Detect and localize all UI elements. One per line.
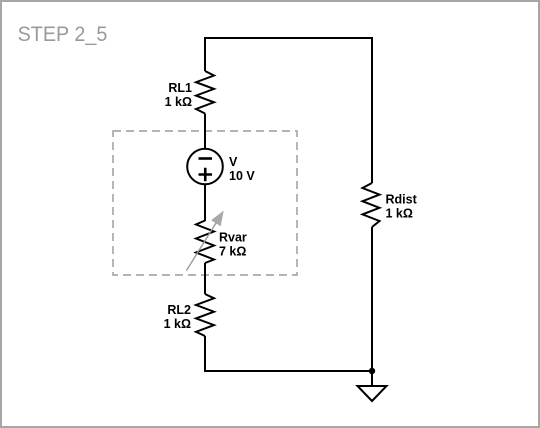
wire top (node between RL1 and Rdist) bbox=[205, 37, 372, 39]
resistor RL1 bbox=[196, 71, 214, 114]
junction (bottom node) bbox=[369, 368, 375, 374]
wire RL2 down to bottom corner bbox=[204, 336, 206, 372]
wiper arrow of Rvar bbox=[186, 211, 223, 271]
label Rdist bbox=[386, 193, 418, 207]
wire Rvar to RL2 bbox=[204, 263, 206, 294]
svg-text:RL1: RL1 bbox=[168, 81, 192, 95]
svg-text:1 kΩ: 1 kΩ bbox=[165, 95, 192, 109]
title STEP 2_5 bbox=[18, 22, 108, 46]
svg-text:7 kΩ: 7 kΩ bbox=[219, 245, 246, 259]
wire right: top node to Rdist bbox=[371, 37, 373, 183]
svg-text:10 V: 10 V bbox=[229, 169, 255, 183]
wire left: top node to RL1 bbox=[204, 37, 206, 71]
selection box (dashed subcircuit boundary) bbox=[113, 131, 297, 275]
svg-text:Rvar: Rvar bbox=[219, 231, 247, 245]
label RL1 bbox=[168, 81, 192, 95]
value 1 kΩ (RL2) bbox=[164, 317, 191, 331]
resistor Rvar (variable) bbox=[196, 221, 214, 264]
svg-text:1 kΩ: 1 kΩ bbox=[386, 207, 413, 221]
label RL2 bbox=[167, 303, 191, 317]
value 1 kΩ (Rdist) bbox=[386, 207, 413, 221]
wire RL1 to source V bbox=[204, 114, 206, 150]
label Rvar bbox=[219, 231, 247, 245]
svg-text:Rdist: Rdist bbox=[386, 193, 418, 207]
ground bbox=[358, 371, 387, 401]
wire bottom (node between RL2 and ground) bbox=[204, 370, 372, 372]
wire source V to Rvar bbox=[204, 185, 206, 222]
value 10 V bbox=[229, 169, 255, 183]
voltage source V (circle with - and +) bbox=[187, 149, 223, 185]
label V bbox=[229, 155, 238, 169]
wire Rdist to bottom junction bbox=[371, 227, 373, 372]
svg-text:RL2: RL2 bbox=[167, 303, 191, 317]
resistor Rdist bbox=[363, 183, 380, 227]
svg-text:STEP 2_5: STEP 2_5 bbox=[18, 22, 108, 46]
value 1 kΩ (RL1) bbox=[165, 95, 192, 109]
svg-text:V: V bbox=[229, 155, 238, 169]
value 7 kΩ bbox=[219, 245, 246, 259]
svg-text:1 kΩ: 1 kΩ bbox=[164, 317, 191, 331]
resistor RL2 bbox=[196, 294, 214, 336]
